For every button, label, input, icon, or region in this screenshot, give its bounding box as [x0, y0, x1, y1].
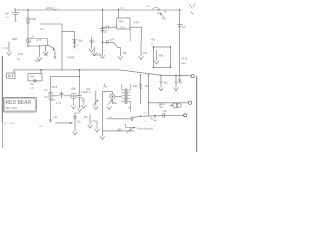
svg-text:Feedback: Feedback — [137, 126, 153, 130]
svg-text:1M: 1M — [81, 98, 84, 101]
svg-text:5μF+: 5μF+ — [110, 40, 116, 42]
svg-text:-9v: -9v — [150, 118, 154, 121]
svg-text:10k: 10k — [178, 81, 183, 84]
svg-text:(+9v): (+9v) — [118, 7, 124, 10]
svg-text:+9v: +9v — [30, 88, 35, 90]
svg-text:22k: 22k — [17, 59, 22, 61]
svg-text:10n: 10n — [77, 121, 82, 123]
svg-text:+9v: +9v — [103, 85, 108, 89]
svg-text:10μ: 10μ — [163, 110, 168, 113]
svg-text:47k: 47k — [44, 90, 49, 92]
svg-text:9V: 9V — [6, 12, 9, 16]
svg-text:2n2: 2n2 — [30, 84, 35, 86]
svg-text:T.R.3: T.R.3 — [51, 86, 57, 89]
svg-text:6.8k: 6.8k — [158, 53, 164, 57]
svg-text:1k.: 1k. — [144, 121, 147, 123]
svg-text:4.7: 4.7 — [40, 27, 44, 31]
svg-text:220p: 220p — [76, 113, 82, 115]
svg-text:17k: 17k — [143, 112, 147, 114]
svg-text:0.4μF: 0.4μF — [81, 91, 88, 94]
svg-text:Bat.: Bat. — [6, 16, 10, 19]
svg-text:10k: 10k — [44, 97, 49, 99]
svg-text:( 45 + 1987 ): ( 45 + 1987 ) — [3, 123, 16, 125]
svg-text:2k2: 2k2 — [164, 81, 169, 84]
svg-text:100k: 100k — [71, 87, 77, 90]
svg-text:10k: 10k — [133, 85, 138, 88]
svg-text:43k: 43k — [147, 6, 151, 8]
svg-text:LED: LED — [12, 37, 17, 41]
svg-text:+TTL: +TTL — [181, 57, 188, 61]
svg-text:680: 680 — [118, 128, 123, 131]
svg-text:22k: 22k — [160, 107, 164, 109]
svg-text:1.5k: 1.5k — [3, 47, 8, 50]
svg-text:100k: 100k — [30, 17, 36, 21]
svg-text:100k: 100k — [35, 60, 41, 63]
svg-text:10k: 10k — [84, 116, 89, 119]
svg-text:“GAIN”: “GAIN” — [67, 56, 75, 60]
svg-text:50k: 50k — [113, 102, 118, 105]
svg-text:10μ: 10μ — [78, 39, 83, 42]
svg-text:TR1: TR1 — [120, 25, 125, 29]
svg-text:240: 240 — [39, 126, 43, 128]
svg-text:4.7k: 4.7k — [56, 102, 61, 105]
svg-text:2.2k: 2.2k — [18, 52, 24, 56]
svg-text:4.1k: 4.1k — [109, 117, 114, 119]
svg-text:+9v: +9v — [151, 39, 156, 42]
svg-text:+9v.: +9v. — [53, 116, 58, 119]
svg-text:TR4: TR4 — [30, 75, 35, 78]
svg-text:+: + — [94, 40, 96, 43]
svg-text:15k: 15k — [143, 52, 148, 55]
svg-text:+4.7μ: +4.7μ — [91, 120, 98, 123]
svg-text:V1.: V1. — [128, 106, 132, 110]
svg-text:10k: 10k — [123, 52, 128, 55]
svg-text:1M: 1M — [75, 45, 78, 47]
svg-text:0.022: 0.022 — [101, 31, 108, 34]
svg-text:MK 12Ω: MK 12Ω — [6, 106, 18, 110]
svg-text:2M2: 2M2 — [161, 18, 166, 20]
svg-text:Tr: Tr — [151, 44, 153, 47]
svg-text:0.047: 0.047 — [134, 22, 141, 25]
svg-text:680R: 680R — [160, 104, 166, 106]
svg-text:+9V(+) →: +9V(+) → — [45, 6, 58, 10]
svg-text:220k: 220k — [97, 54, 103, 57]
svg-text:TR4: TR4 — [119, 19, 124, 23]
